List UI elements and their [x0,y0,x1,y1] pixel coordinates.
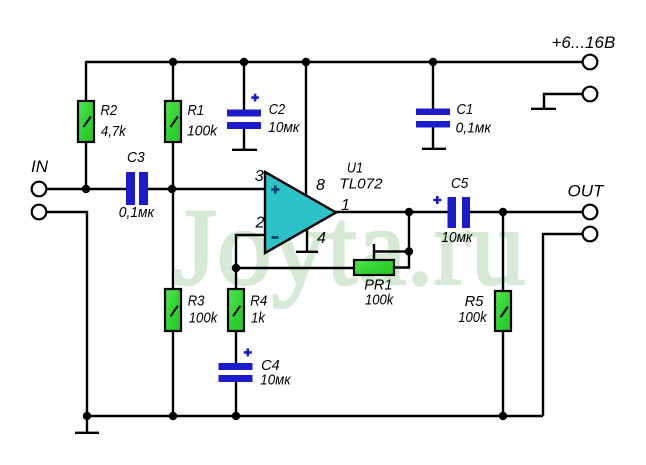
node input-R1 [168,185,176,193]
capacitor C2 [227,94,261,129]
wire C3 to op-amp pin 3 [147,188,265,190]
node rail-pin8 [302,58,310,66]
node rail-C2 [240,58,248,66]
wire PR1 wiper tap [374,244,409,260]
wire R3 top lead [172,189,174,289]
terminal OUT lower [583,227,598,242]
svg-text:4,7k: 4,7k [101,123,127,140]
node junction dots [82,58,507,420]
svg-text:0,1мк: 0,1мк [456,119,492,136]
wire supply lower terminal to ground [544,94,583,109]
capacitor C3 [126,172,148,205]
wire R3 bottom lead [172,330,174,416]
svg-text:100k: 100k [458,309,488,326]
ground symbol bottom left [75,416,99,433]
node output-R5 [499,208,507,216]
wire R2 top lead [85,61,87,101]
svg-text:U1: U1 [347,160,363,177]
wire node to R4 [235,268,237,289]
terminal +V [583,55,598,70]
resistor R4 [228,289,244,331]
svg-text:4: 4 [317,230,326,247]
wire C2 bottom lead [243,128,245,150]
wire R1 bottom lead [172,142,174,189]
node wiper [405,247,413,255]
svg-text:100k: 100k [365,292,395,309]
svg-text:R1: R1 [188,102,205,119]
svg-text:R2: R2 [101,102,118,119]
resistor R3 [165,289,181,331]
wire R5 bottom lead [502,330,504,416]
wire C1 top lead [432,62,434,110]
svg-text:3: 3 [255,168,264,185]
node rail-C1 [429,58,437,66]
svg-text:10мк: 10мк [441,229,473,246]
svg-text:+6...16В: +6...16В [552,33,616,52]
ground stub below C2 [232,149,257,151]
svg-text:R5: R5 [465,293,484,310]
node ground-C4 [232,412,240,420]
node ground-R3 [169,412,177,420]
svg-text:C1: C1 [457,101,474,118]
svg-text:10мк: 10мк [268,119,300,136]
svg-text:C5: C5 [451,175,469,192]
node inverting input [232,264,240,272]
wire C5 to OUT terminal [470,211,583,213]
wire feedback node to PR1 left lead [236,267,354,269]
svg-text:IN: IN [31,157,49,176]
ground stub below pin 4 [296,251,318,253]
capacitor C4 [219,348,253,382]
wire IN lower terminal to ground rail [46,212,87,416]
capacitor C1 [416,109,450,128]
op-amp U1 [265,172,336,253]
svg-text:100k: 100k [187,123,218,140]
terminal supply ground [583,87,598,102]
wire PR1 right lead up to output [394,212,409,268]
node ground-R5 [499,412,507,420]
wire C2 top lead [243,62,245,110]
ground stub below C1 [422,148,446,150]
trimmer PR1 [354,260,394,275]
svg-text:8: 8 [316,177,325,194]
wire R5 top lead [502,212,504,291]
svg-text:10мк: 10мк [260,372,291,389]
svg-text:1: 1 [341,197,350,214]
ground symbol top right [531,108,556,110]
wire top supply rail [86,61,582,63]
svg-text:TL072: TL072 [339,175,383,192]
svg-text:C3: C3 [127,149,145,166]
wire bottom ground rail [86,415,543,417]
resistor R5 [495,291,511,331]
svg-text:OUT: OUT [568,181,606,200]
capacitor C5 [433,196,470,228]
node rail-R1 [169,58,177,66]
wire C1 bottom lead [432,127,434,149]
wire op-amp pin 4 stub [306,229,308,251]
resistor R2 [78,101,94,142]
wire IN to C3 [46,188,127,190]
terminal OUT upper [583,205,598,220]
wire R1 top lead [172,62,174,101]
wire R4 to C4 [235,330,237,364]
svg-text:0,1мк: 0,1мк [119,204,155,221]
svg-text:R4: R4 [250,293,267,310]
wire op-amp output pin 1 [335,211,448,213]
svg-text:2: 2 [255,214,265,231]
terminal IN upper [32,182,47,197]
svg-text:R3: R3 [188,293,205,310]
wire R2 bottom lead [85,142,87,189]
svg-text:100k: 100k [189,310,219,327]
svg-text:1k: 1k [251,310,266,327]
wire C4 to ground rail [235,381,237,416]
svg-text:C2: C2 [269,101,286,118]
node ground-input [83,412,91,420]
wire op-amp pin 8 to rail [305,62,307,196]
wire OUT lower terminal down to ground rail [543,234,583,416]
resistor R1 [165,101,181,142]
node output-feedback [405,208,413,216]
terminal IN lower [32,205,47,220]
wire op-amp pin 2 to node [236,235,265,268]
node input-R2 [82,185,90,193]
terminals [32,55,598,242]
